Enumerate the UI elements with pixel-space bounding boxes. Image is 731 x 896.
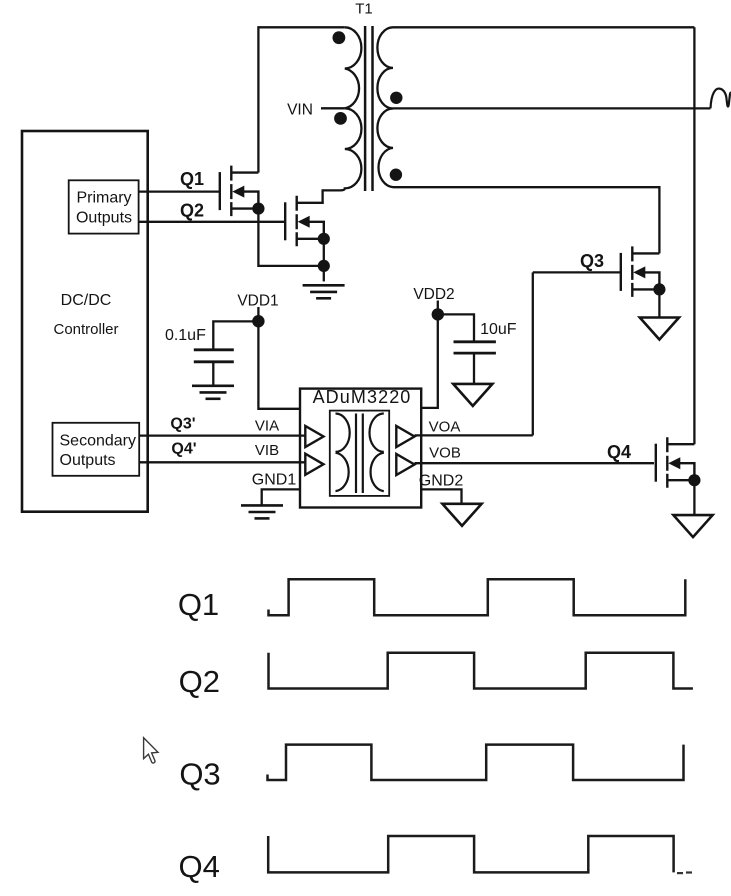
svg-text:Secondary: Secondary <box>60 433 137 450</box>
svg-text:10uF: 10uF <box>480 321 517 338</box>
svg-text:VIA: VIA <box>255 418 279 435</box>
svg-text:ADuM3220: ADuM3220 <box>313 387 412 407</box>
svg-text:Q4: Q4 <box>607 442 631 462</box>
svg-text:Q1: Q1 <box>178 587 219 622</box>
svg-text:VIB: VIB <box>255 442 279 459</box>
svg-text:0.1uF: 0.1uF <box>165 327 206 344</box>
svg-text:GND1: GND1 <box>252 471 297 488</box>
svg-text:VDD1: VDD1 <box>237 293 278 310</box>
svg-text:DC/DC: DC/DC <box>61 292 112 309</box>
svg-text:Q2: Q2 <box>180 200 204 220</box>
svg-text:Q4: Q4 <box>179 849 220 884</box>
svg-text:Controller: Controller <box>53 321 118 338</box>
svg-text:VDD2: VDD2 <box>413 286 454 303</box>
svg-text:VOB: VOB <box>429 445 461 462</box>
svg-text:Q1: Q1 <box>180 169 204 189</box>
svg-text:Outputs: Outputs <box>76 210 132 227</box>
svg-text:Outputs: Outputs <box>60 452 116 469</box>
svg-text:GND2: GND2 <box>419 473 464 490</box>
svg-text:Q3: Q3 <box>179 757 220 792</box>
svg-text:Q4': Q4' <box>171 441 196 458</box>
svg-text:Primary: Primary <box>76 190 131 207</box>
svg-text:T1: T1 <box>355 1 373 18</box>
svg-text:VOA: VOA <box>429 419 461 436</box>
svg-text:Q3': Q3' <box>170 416 195 433</box>
svg-text:VIN: VIN <box>287 102 313 119</box>
svg-text:Q2: Q2 <box>179 664 220 699</box>
svg-text:Q3: Q3 <box>580 251 604 271</box>
